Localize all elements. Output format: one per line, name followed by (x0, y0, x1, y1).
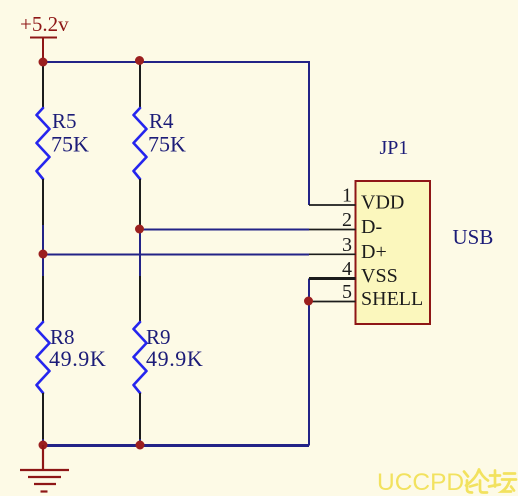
svg-text:VDD: VDD (361, 192, 404, 214)
svg-text:5: 5 (342, 281, 352, 303)
watermark CJK glyph tan (489, 471, 516, 492)
svg-text:D-: D- (361, 216, 382, 238)
pin 3 D+ (309, 234, 387, 263)
wire D+ (pin3 to R5 column) (43, 254, 309, 256)
svg-text:USB: USB (453, 225, 494, 249)
resistor R4 (134, 62, 187, 225)
svg-text:JP1: JP1 (380, 137, 409, 159)
svg-text:49.9K: 49.9K (146, 346, 203, 371)
connector JP1 body (356, 181, 431, 324)
wire R4 column vertical (139, 225, 141, 276)
svg-text:D+: D+ (361, 241, 387, 263)
watermark CJK glyph lun (464, 470, 488, 493)
svg-text:4: 4 (342, 258, 352, 280)
svg-text:R5: R5 (52, 109, 77, 133)
wire R5 column vertical (42, 225, 44, 276)
wire VSS/SHELL down right side (308, 279, 310, 446)
pin 5 SHELL (309, 281, 423, 310)
junction (SHELL pin / VSS wire) (304, 297, 313, 306)
svg-text:49.9K: 49.9K (49, 346, 106, 371)
wire top rail and down to pin1 (43, 62, 309, 205)
watermark UCCPD forum (377, 469, 464, 496)
resistor R5 (37, 62, 90, 225)
svg-text:75K: 75K (51, 132, 89, 157)
resistor R8 (37, 276, 107, 439)
junction (D+ / R5 column) (39, 250, 48, 259)
svg-text:VSS: VSS (361, 265, 398, 287)
pin 1 VDD (309, 185, 404, 214)
junction (bottom rail / R9) (136, 441, 145, 450)
junction (bottom rail / R8) (39, 441, 48, 450)
svg-text:1: 1 (342, 185, 352, 207)
svg-text:UCCPD: UCCPD (377, 469, 464, 496)
junction (top rail / R4) (135, 56, 144, 65)
svg-text:3: 3 (342, 234, 352, 256)
wire bottom ground rail (43, 444, 309, 447)
wire R8 bottom stub (42, 439, 44, 445)
pin 2 D- (309, 209, 382, 238)
svg-text:R4: R4 (149, 109, 174, 133)
wire D- (pin2 to R4 column) (140, 229, 309, 231)
junction (D- / R4 column) (135, 225, 144, 234)
svg-text:+5.2v: +5.2v (20, 12, 69, 36)
junction (top rail / R5) (39, 58, 48, 67)
svg-text:2: 2 (342, 209, 352, 231)
resistor R9 (134, 276, 204, 439)
pin 4 VSS (309, 258, 398, 287)
wire R9 bottom stub (139, 439, 141, 445)
ground (20, 445, 69, 492)
svg-text:SHELL: SHELL (361, 288, 423, 310)
power port bar symbol (30, 38, 57, 62)
svg-text:75K: 75K (148, 132, 186, 157)
